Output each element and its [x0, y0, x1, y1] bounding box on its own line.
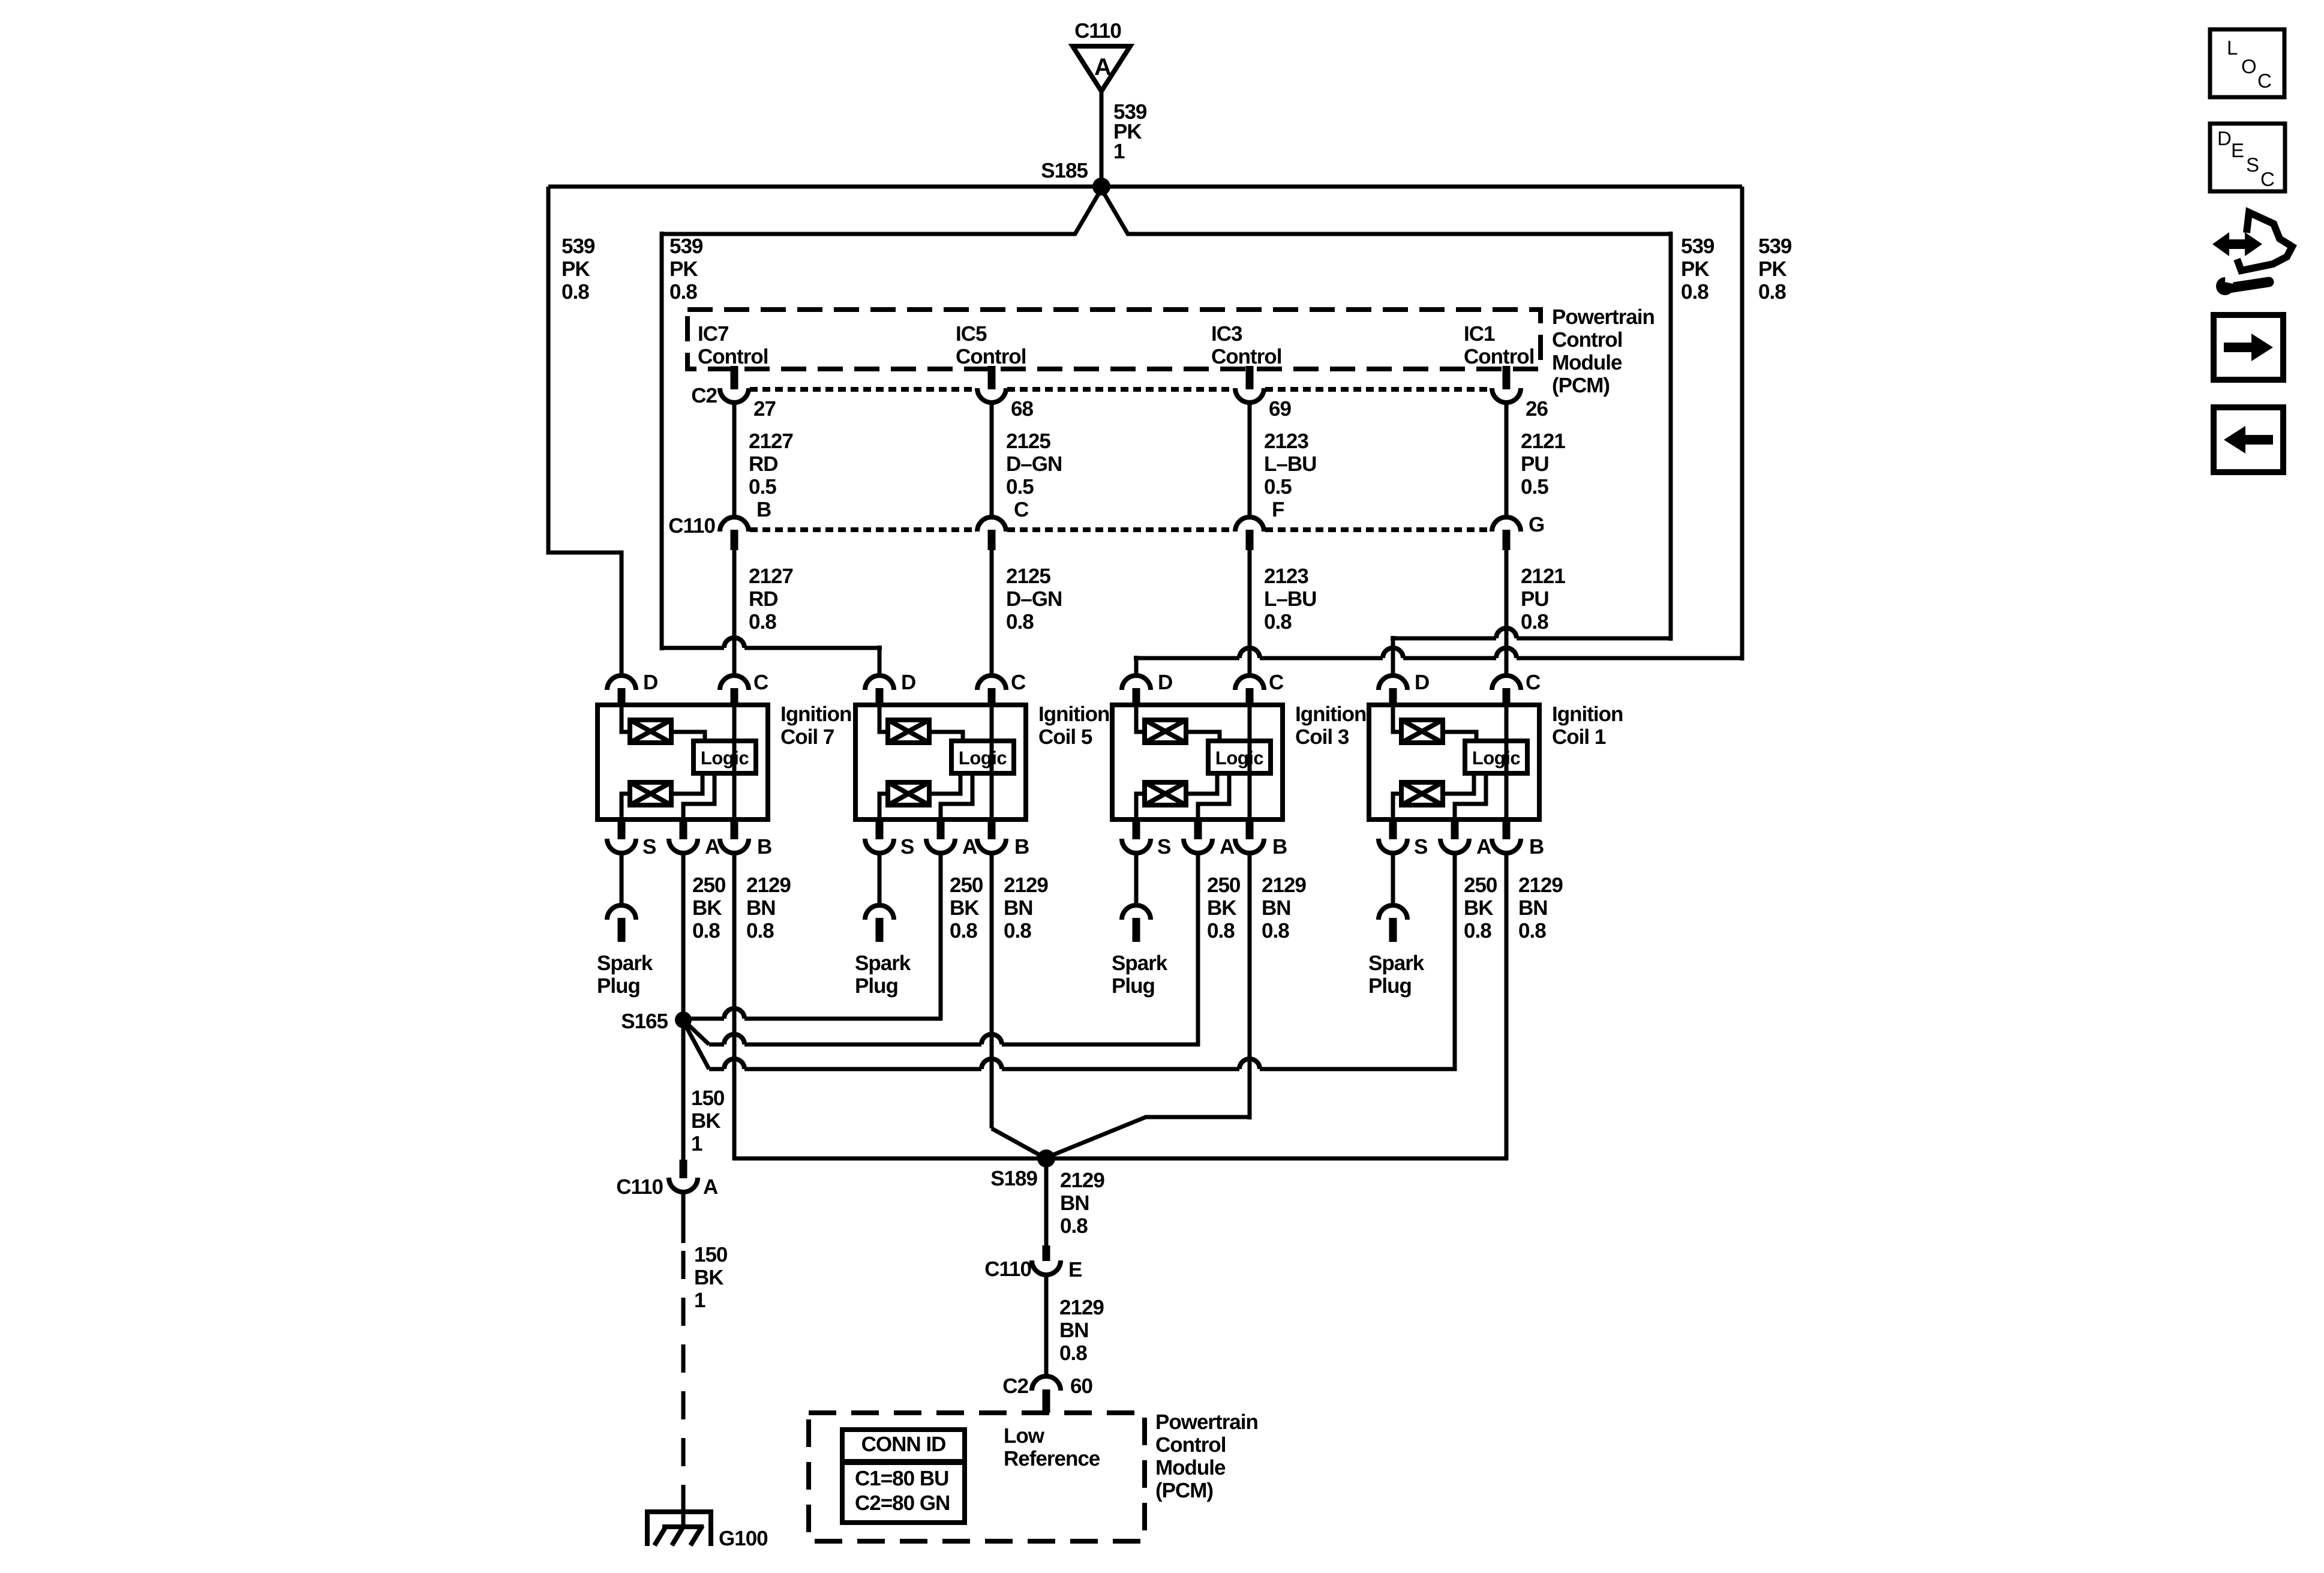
- svg-text:0.8: 0.8: [1262, 919, 1289, 942]
- svg-text:IC3: IC3: [1211, 322, 1242, 346]
- pin stub IC1 control from PCM: [1503, 366, 1511, 389]
- svg-text:Reference: Reference: [1004, 1447, 1100, 1470]
- svg-text:2121: 2121: [1521, 565, 1565, 588]
- svg-text:Spark: Spark: [1368, 951, 1425, 975]
- svg-text:68: 68: [1011, 397, 1033, 421]
- coil 3 internal wire logic to A: [1198, 773, 1229, 819]
- ignition coil 3 terminal D connector: [1122, 676, 1151, 690]
- svg-text:C110: C110: [616, 1175, 663, 1199]
- PCM module dashed outline (bottom): [809, 1413, 1145, 1541]
- connector C110 terminal C: [977, 517, 1006, 532]
- svg-text:BN: BN: [1004, 896, 1033, 920]
- svg-text:Powertrain: Powertrain: [1552, 305, 1655, 329]
- coil 7 internal wire logic to A: [683, 773, 714, 819]
- svg-text:0.5: 0.5: [749, 475, 776, 499]
- svg-text:69: 69: [1269, 397, 1291, 421]
- wire 539 PK inner-right vertical: [1669, 232, 1673, 641]
- ignition coil 3 terminal A connector: [1194, 817, 1202, 839]
- svg-text:G100: G100: [719, 1527, 768, 1550]
- ground G100 symbol: [647, 1512, 711, 1546]
- svg-text:0.8: 0.8: [1518, 919, 1546, 942]
- coil 1 secondary winding symbol: [1401, 782, 1443, 805]
- ignition coil 5 terminal S connector: [876, 817, 884, 839]
- svg-text:IC1: IC1: [1464, 322, 1495, 346]
- wire coil3 B jog to S189: [1248, 853, 1252, 1119]
- coil 5 primary winding symbol: [888, 720, 929, 743]
- svg-text:IC7: IC7: [698, 322, 728, 346]
- wire 150 BK 1 to G100 (dashed): [681, 1192, 686, 1243]
- svg-text:2125: 2125: [1006, 565, 1050, 588]
- pin stub IC3 control from PCM: [1246, 366, 1254, 389]
- svg-text:Control: Control: [956, 345, 1026, 368]
- coil 7 logic box: [693, 741, 756, 773]
- svg-text:C1=80 BU: C1=80 BU: [855, 1467, 948, 1490]
- svg-text:Powertrain: Powertrain: [1155, 1410, 1258, 1434]
- svg-text:26: 26: [1526, 397, 1548, 421]
- svg-text:Plug: Plug: [597, 974, 640, 998]
- coil 5 internal wire secondary to S: [879, 794, 888, 819]
- ignition coil 1 terminal C connector: [1492, 676, 1521, 690]
- svg-text:C2: C2: [691, 384, 717, 407]
- svg-text:(PCM): (PCM): [1155, 1479, 1213, 1502]
- coil 7 internal wire C through logic to B: [732, 705, 737, 819]
- svg-text:2129: 2129: [1262, 873, 1306, 897]
- coil 1 primary winding symbol: [1401, 720, 1443, 743]
- svg-text:0.8: 0.8: [692, 919, 720, 942]
- svg-text:Ignition: Ignition: [1038, 703, 1109, 726]
- connector C110 terminal E: [1043, 1245, 1050, 1261]
- splice S165 junction dot: [675, 1011, 692, 1028]
- svg-text:L: L: [2227, 37, 2238, 59]
- ignition coil 3 terminal S connector: [1133, 817, 1140, 839]
- svg-text:250: 250: [950, 873, 983, 897]
- svg-text:Ignition: Ignition: [780, 703, 851, 726]
- svg-text:2129: 2129: [1059, 1296, 1104, 1319]
- coil 3 internal wire logic to secondary: [1186, 773, 1217, 794]
- svg-text:0.8: 0.8: [1207, 919, 1235, 942]
- ignition coil 3 terminal B connector: [1246, 817, 1254, 839]
- ignition coil 7 module box: [597, 705, 768, 819]
- svg-text:2123: 2123: [1264, 565, 1308, 588]
- svg-text:Control: Control: [1155, 1433, 1226, 1457]
- coil 7 primary winding symbol: [630, 720, 671, 743]
- ignition coil 1 terminal D connector: [1379, 676, 1407, 690]
- coil 3 logic box: [1208, 741, 1271, 773]
- svg-text:D: D: [1158, 671, 1172, 694]
- svg-text:Plug: Plug: [1112, 974, 1155, 998]
- ignition coil 7 terminal B connector: [731, 817, 738, 839]
- wire S189 main low-reference line: [732, 1157, 1508, 1161]
- ignition coil 1 module box: [1369, 705, 1539, 819]
- svg-text:BK: BK: [950, 896, 979, 920]
- wire coil1 B down to S189 line: [1505, 853, 1509, 1160]
- svg-text:C2: C2: [1002, 1374, 1028, 1398]
- wire inner-right to coil 1 D (hop over coil1 C wire): [1391, 637, 1496, 641]
- svg-text:PK: PK: [562, 257, 590, 281]
- svg-text:C: C: [2260, 168, 2275, 190]
- ignition coil 3 terminal C connector: [1235, 676, 1264, 690]
- svg-text:0.8: 0.8: [1060, 1214, 1088, 1238]
- svg-text:S: S: [1414, 835, 1427, 858]
- svg-text:C: C: [1269, 671, 1284, 694]
- ignition coil 3 module box: [1112, 705, 1283, 819]
- svg-text:2125: 2125: [1006, 430, 1050, 453]
- coil 1 spark plug connector: [1379, 905, 1407, 920]
- wire 539 PK outer-right vertical: [1740, 187, 1744, 661]
- ignition coil 5 terminal B connector: [988, 817, 996, 839]
- connector C110 terminal G: [1492, 517, 1521, 532]
- connector C110 terminal F: [1235, 517, 1264, 532]
- ignition coil 7 terminal D connector: [607, 676, 636, 690]
- svg-text:0.5: 0.5: [1264, 475, 1292, 499]
- ignition coil 7 terminal S connector: [618, 817, 626, 839]
- svg-text:Control: Control: [1464, 345, 1534, 368]
- connector C110 triangle symbol A: [1073, 46, 1130, 91]
- svg-text:D: D: [643, 671, 657, 694]
- svg-text:BK: BK: [692, 896, 722, 920]
- svg-text:0.8: 0.8: [1006, 610, 1034, 634]
- connector C2 terminal 26: [1492, 388, 1521, 403]
- svg-text:C110: C110: [984, 1257, 1031, 1281]
- svg-text:RD: RD: [749, 587, 778, 611]
- coil 1 spark plug wire: [1391, 853, 1395, 905]
- svg-text:PK: PK: [669, 257, 698, 281]
- svg-text:150: 150: [694, 1243, 728, 1266]
- wire 2125 D–GN 0.5: [990, 403, 994, 517]
- svg-text:E: E: [2231, 139, 2244, 161]
- coil 1 internal wire logic to A: [1455, 773, 1486, 819]
- splice S189 junction dot: [1037, 1149, 1055, 1167]
- svg-text:60: 60: [1070, 1374, 1092, 1398]
- PCM module dashed outline (top): [687, 310, 1541, 369]
- svg-text:Coil 1: Coil 1: [1552, 725, 1606, 749]
- svg-text:0.8: 0.8: [749, 610, 776, 634]
- coil 5 internal wire logic to secondary: [929, 773, 960, 794]
- svg-text:A: A: [1476, 835, 1491, 858]
- svg-text:250: 250: [1464, 873, 1497, 897]
- svg-text:Logic: Logic: [959, 748, 1007, 769]
- svg-text:F: F: [1272, 498, 1284, 521]
- coil 5 logic box: [951, 741, 1014, 773]
- wire S165 to coil 1 A: [684, 1023, 709, 1069]
- wire 2121 PU 0.5: [1505, 403, 1509, 517]
- svg-text:B: B: [1272, 835, 1287, 858]
- coil 3 spark plug connector: [1122, 905, 1151, 920]
- coil 3 internal wire D to primary: [1136, 705, 1145, 732]
- svg-text:2129: 2129: [746, 873, 791, 897]
- svg-text:539: 539: [669, 235, 703, 258]
- svg-text:27: 27: [753, 397, 776, 421]
- svg-text:0.5: 0.5: [1521, 475, 1548, 499]
- coil 3 spark plug wire: [1134, 853, 1139, 905]
- icon DESC button: [2210, 124, 2285, 191]
- wire 2127 RD 0.5: [732, 403, 737, 517]
- coil 3 internal wire C through logic to B: [1248, 705, 1252, 819]
- svg-text:0.8: 0.8: [1004, 919, 1031, 942]
- icon back arrow button: [2214, 407, 2283, 472]
- svg-text:S: S: [642, 835, 656, 858]
- svg-text:A: A: [1094, 54, 1111, 80]
- ignition coil 5 terminal C connector: [977, 676, 1006, 690]
- svg-text:Coil 5: Coil 5: [1038, 725, 1092, 749]
- wire 150 BK 1 S165 down: [681, 1020, 686, 1160]
- svg-text:2123: 2123: [1264, 430, 1308, 453]
- connector C110 in-line dotted row: [750, 527, 976, 532]
- svg-text:0.8: 0.8: [562, 280, 589, 304]
- svg-text:0.8: 0.8: [950, 919, 977, 942]
- svg-text:Spark: Spark: [855, 951, 911, 975]
- svg-text:C: C: [1526, 671, 1541, 694]
- svg-text:L–BU: L–BU: [1264, 452, 1316, 476]
- svg-text:Plug: Plug: [855, 974, 898, 998]
- wire S165 to coil 3 A: [686, 1022, 709, 1044]
- svg-text:0.8: 0.8: [669, 280, 697, 304]
- coil 1 internal wire D to primary: [1393, 705, 1401, 732]
- wire 2129 BN 0.8 from S189: [1044, 1158, 1049, 1245]
- svg-text:B: B: [1529, 835, 1544, 858]
- svg-text:2129: 2129: [1518, 873, 1563, 897]
- connector C2 terminal 68: [977, 388, 1006, 403]
- connector C2 in-line dotted row: [750, 387, 976, 392]
- svg-text:C110: C110: [1074, 19, 1121, 43]
- svg-text:0.8: 0.8: [746, 919, 774, 942]
- svg-text:Spark: Spark: [1112, 951, 1168, 975]
- svg-text:Ignition: Ignition: [1552, 703, 1623, 726]
- icon vehicle diagnostic (arrow, outline, wrench): [2212, 232, 2262, 256]
- svg-text:2127: 2127: [749, 565, 793, 588]
- svg-text:C: C: [1014, 498, 1029, 521]
- svg-text:C110: C110: [668, 514, 715, 538]
- wire 539 PK inner-left vertical: [660, 232, 664, 650]
- wire 2127 RD 0.8: [732, 550, 737, 676]
- ignition coil 7 terminal A connector: [680, 817, 687, 839]
- svg-text:S: S: [1157, 835, 1170, 858]
- wire 2123 L–BU 0.8: [1248, 550, 1252, 676]
- coil 7 spark plug connector: [607, 905, 636, 920]
- svg-text:2127: 2127: [749, 430, 793, 453]
- connector C2 terminal 69: [1235, 388, 1264, 403]
- svg-text:(PCM): (PCM): [1552, 374, 1610, 397]
- svg-text:D: D: [901, 671, 915, 694]
- svg-text:250: 250: [1207, 873, 1241, 897]
- coil 1 internal wire primary to logic: [1443, 732, 1476, 741]
- coil 5 internal wire logic to A: [941, 773, 972, 819]
- coil 7 spark plug wire: [620, 853, 624, 905]
- wire inner-left to coil 5 D (hop over coil7 C wire): [660, 646, 724, 650]
- coil 7 internal wire D to primary: [621, 705, 630, 732]
- svg-text:1: 1: [694, 1289, 705, 1312]
- svg-text:D: D: [1415, 671, 1429, 694]
- wire 2125 D–GN 0.8: [990, 550, 994, 676]
- svg-text:0.8: 0.8: [1681, 280, 1709, 304]
- wire outer-right to coil 3 D (hops over C3, D1, C1 wires): [1134, 656, 1239, 661]
- coil 3 secondary winding symbol: [1145, 782, 1186, 805]
- svg-text:S: S: [900, 835, 914, 858]
- svg-text:Control: Control: [1552, 328, 1622, 352]
- svg-text:0.8: 0.8: [1464, 919, 1491, 942]
- svg-text:O: O: [2241, 55, 2257, 77]
- ignition coil 1 terminal S connector: [1389, 817, 1397, 839]
- svg-text:A: A: [962, 835, 977, 858]
- icon LOC button: [2210, 29, 2284, 97]
- svg-text:D: D: [2217, 127, 2232, 149]
- svg-text:250: 250: [692, 873, 726, 897]
- svg-text:Spark: Spark: [597, 951, 653, 975]
- svg-text:B: B: [757, 835, 771, 858]
- svg-text:BN: BN: [746, 896, 776, 920]
- svg-text:BK: BK: [694, 1266, 723, 1289]
- svg-text:PK: PK: [1758, 257, 1786, 281]
- coil 7 internal wire logic to secondary: [671, 773, 702, 794]
- wire coil5 B diagonal to S189: [990, 853, 994, 1128]
- svg-text:BK: BK: [1464, 896, 1493, 920]
- svg-text:Ignition: Ignition: [1295, 703, 1366, 726]
- svg-text:1: 1: [691, 1132, 702, 1155]
- wire inner distribution line from S185 (V notch): [662, 189, 1101, 234]
- svg-text:539: 539: [1758, 235, 1792, 258]
- svg-text:S185: S185: [1041, 159, 1088, 182]
- svg-text:150: 150: [691, 1086, 725, 1110]
- svg-text:S: S: [2246, 154, 2259, 176]
- svg-text:BK: BK: [1207, 896, 1236, 920]
- svg-text:PK: PK: [1681, 257, 1709, 281]
- icon next arrow button: [2214, 315, 2283, 380]
- coil 3 internal wire secondary to S: [1136, 794, 1145, 819]
- svg-text:A: A: [1220, 835, 1235, 858]
- svg-text:C2=80 GN: C2=80 GN: [855, 1491, 950, 1515]
- svg-text:S165: S165: [621, 1010, 668, 1033]
- svg-text:Control: Control: [698, 345, 768, 368]
- svg-text:PU: PU: [1521, 452, 1549, 476]
- svg-text:E: E: [1068, 1258, 1082, 1281]
- svg-text:539: 539: [562, 235, 595, 258]
- svg-text:539: 539: [1681, 235, 1715, 258]
- connector C2 terminal 60: [1032, 1376, 1061, 1391]
- svg-text:RD: RD: [749, 452, 778, 476]
- svg-text:S189: S189: [990, 1167, 1037, 1190]
- svg-text:2129: 2129: [1004, 873, 1048, 897]
- ignition coil 5 module box: [855, 705, 1026, 819]
- svg-text:0.8: 0.8: [1758, 280, 1786, 304]
- svg-text:Plug: Plug: [1368, 974, 1412, 998]
- coil 1 internal wire logic to secondary: [1443, 773, 1474, 794]
- coil 7 internal wire primary to logic: [671, 732, 705, 741]
- svg-text:0.8: 0.8: [1059, 1341, 1087, 1365]
- svg-text:D–GN: D–GN: [1006, 452, 1062, 476]
- splice S185 junction dot: [1092, 178, 1110, 196]
- coil 1 internal wire C through logic to B: [1505, 705, 1509, 819]
- coil 7 secondary winding symbol: [630, 782, 671, 805]
- svg-text:C: C: [2257, 70, 2272, 92]
- pin stub IC5 control from PCM: [988, 366, 996, 389]
- svg-text:BN: BN: [1060, 1191, 1089, 1215]
- coil 5 internal wire D to primary: [879, 705, 888, 732]
- svg-text:CONN ID: CONN ID: [861, 1433, 946, 1456]
- coil 5 secondary winding symbol: [888, 782, 929, 805]
- svg-text:BN: BN: [1262, 896, 1291, 920]
- coil 5 internal wire primary to logic: [929, 732, 963, 741]
- wire S165 to coil 5 A: [683, 1017, 724, 1021]
- coil 7 internal wire secondary to S: [621, 794, 630, 819]
- svg-text:0.8: 0.8: [1521, 610, 1548, 634]
- svg-text:Control: Control: [1211, 345, 1281, 368]
- svg-text:BN: BN: [1518, 896, 1548, 920]
- svg-text:Module: Module: [1552, 351, 1622, 374]
- coil 1 internal wire secondary to S: [1393, 794, 1401, 819]
- svg-text:A: A: [705, 835, 720, 858]
- svg-text:IC5: IC5: [956, 322, 987, 346]
- wire 2121 PU 0.8: [1505, 550, 1509, 676]
- svg-text:B: B: [756, 498, 771, 521]
- wire coil7 B down to S189 line: [732, 853, 737, 1160]
- CONN ID table: [842, 1430, 965, 1523]
- wire 2123 L–BU 0.5: [1248, 403, 1252, 517]
- coil 3 internal wire primary to logic: [1186, 732, 1220, 741]
- pin stub IC7 control from PCM: [731, 366, 738, 389]
- svg-text:0.5: 0.5: [1006, 475, 1034, 499]
- coil 3 primary winding symbol: [1145, 720, 1186, 743]
- wire 2129 BN 0.8 to PCM: [1044, 1275, 1049, 1377]
- ignition coil 1 terminal B connector: [1503, 817, 1511, 839]
- svg-text:Logic: Logic: [1472, 748, 1520, 769]
- svg-text:Coil 3: Coil 3: [1295, 725, 1349, 749]
- svg-text:Low: Low: [1004, 1424, 1045, 1448]
- coil 1 logic box: [1465, 741, 1527, 773]
- svg-text:C: C: [753, 671, 768, 694]
- coil 5 spark plug wire: [878, 853, 882, 905]
- svg-text:Coil 7: Coil 7: [780, 725, 834, 749]
- svg-text:C: C: [1011, 671, 1026, 694]
- svg-text:D–GN: D–GN: [1006, 587, 1062, 611]
- svg-text:Logic: Logic: [1215, 748, 1263, 769]
- connector C110 terminal A: [680, 1160, 687, 1178]
- coil 5 spark plug connector: [865, 905, 894, 920]
- ignition coil 7 terminal C connector: [720, 676, 749, 690]
- ignition coil 1 terminal A connector: [1451, 817, 1459, 839]
- svg-text:2129: 2129: [1060, 1169, 1104, 1192]
- svg-text:BN: BN: [1059, 1319, 1089, 1342]
- svg-text:G: G: [1529, 513, 1544, 536]
- connector C110 terminal B: [720, 517, 749, 532]
- ignition coil 5 terminal A connector: [937, 817, 945, 839]
- svg-text:1: 1: [1113, 140, 1125, 163]
- svg-text:2121: 2121: [1521, 430, 1565, 453]
- wire outer distribution line from S185: [548, 185, 1742, 189]
- wire 539 PK outer-left vertical to coil 7 D: [548, 187, 621, 676]
- svg-text:L–BU: L–BU: [1264, 587, 1316, 611]
- svg-text:BK: BK: [691, 1109, 720, 1133]
- svg-text:B: B: [1014, 835, 1029, 858]
- wire coil7 A down to S165: [681, 853, 686, 1020]
- coil 5 internal wire C through logic to B: [990, 705, 994, 819]
- svg-text:A: A: [703, 1175, 718, 1199]
- wire 539 PK from C110 to S185: [1100, 91, 1104, 187]
- svg-text:Module: Module: [1155, 1456, 1226, 1479]
- ignition coil 5 terminal D connector: [865, 676, 894, 690]
- svg-text:PU: PU: [1521, 587, 1549, 611]
- connector C2 terminal 27: [720, 388, 749, 403]
- svg-text:0.8: 0.8: [1264, 610, 1292, 634]
- svg-text:Logic: Logic: [701, 748, 749, 769]
